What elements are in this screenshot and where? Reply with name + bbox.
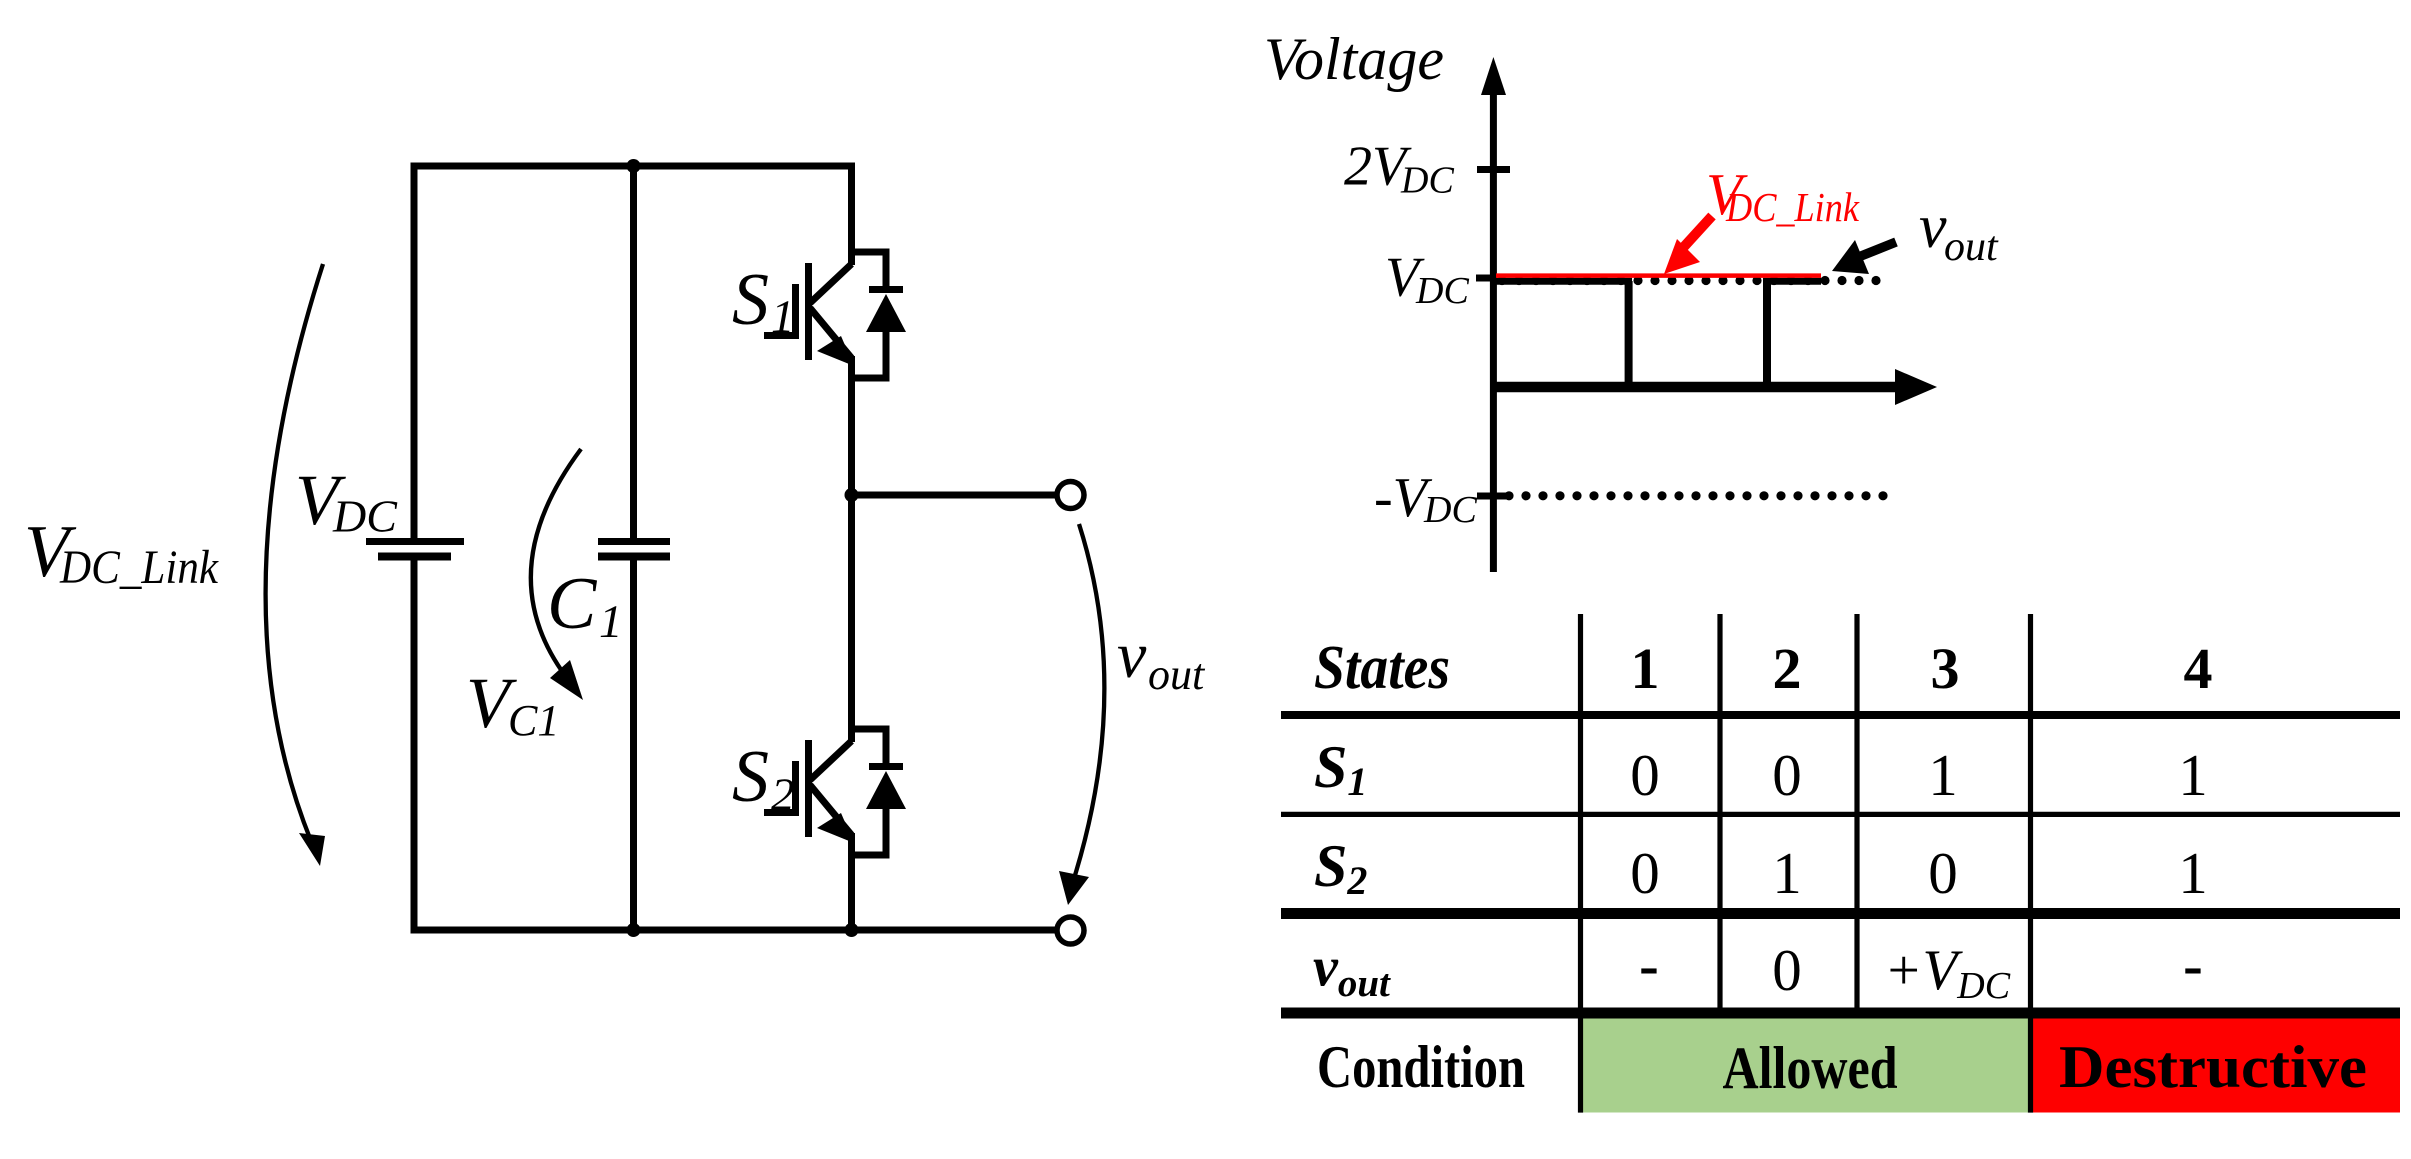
svg-text:-: - xyxy=(2183,932,2203,998)
svg-text:1: 1 xyxy=(599,596,623,648)
svg-text:DC: DC xyxy=(1415,270,1469,312)
svg-text:S: S xyxy=(732,259,769,341)
svg-text:-: - xyxy=(1639,932,1659,998)
svg-text:v: v xyxy=(1919,193,1947,261)
svg-text:Destructive: Destructive xyxy=(2059,1034,2367,1100)
svg-text:DC_Link: DC_Link xyxy=(59,541,219,594)
svg-text:C: C xyxy=(547,563,598,645)
svg-text:Allowed: Allowed xyxy=(1723,1035,1898,1101)
svg-text:0: 0 xyxy=(1630,742,1660,808)
svg-text:C1: C1 xyxy=(508,696,559,745)
svg-text:2: 2 xyxy=(771,769,795,821)
svg-text:out: out xyxy=(1148,650,1206,699)
svg-text:DC: DC xyxy=(1400,160,1454,202)
svg-text:DC_Link: DC_Link xyxy=(1725,184,1860,230)
svg-text:States: States xyxy=(1314,634,1450,702)
svg-text:v: v xyxy=(1117,619,1147,692)
svg-text:1: 1 xyxy=(1631,636,1660,701)
svg-text:1: 1 xyxy=(2178,742,2208,808)
svg-text:2: 2 xyxy=(1773,636,1802,701)
svg-text:Voltage: Voltage xyxy=(1264,26,1444,92)
svg-text:1: 1 xyxy=(1772,840,1802,906)
svg-text:S: S xyxy=(732,736,769,818)
svg-text:1: 1 xyxy=(771,291,795,343)
svg-text:out: out xyxy=(1944,224,1999,270)
svg-text:0: 0 xyxy=(1928,840,1958,906)
svg-text:0: 0 xyxy=(1772,742,1802,808)
svg-text:DC: DC xyxy=(1423,489,1477,531)
svg-text:1: 1 xyxy=(2178,840,2208,906)
svg-text:4: 4 xyxy=(2184,636,2213,701)
svg-text:3: 3 xyxy=(1931,636,1960,701)
svg-text:1: 1 xyxy=(1928,742,1958,808)
svg-text:0: 0 xyxy=(1630,840,1660,906)
svg-text:Condition: Condition xyxy=(1317,1034,1525,1100)
svg-text:DC: DC xyxy=(332,491,398,542)
svg-text:0: 0 xyxy=(1772,937,1802,1003)
